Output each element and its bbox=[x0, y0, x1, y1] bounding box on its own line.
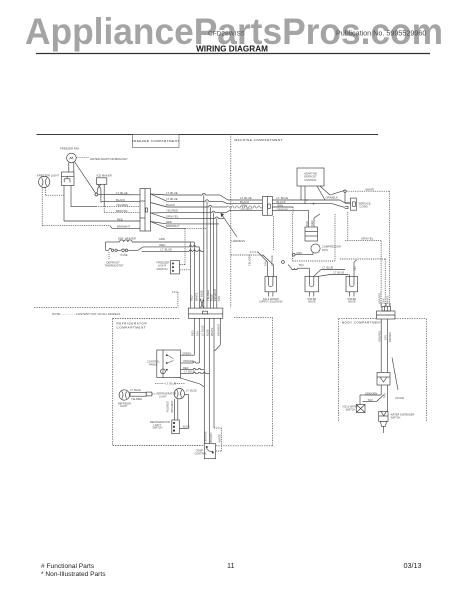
header publication number bbox=[336, 29, 426, 38]
svg-text:11: 11 bbox=[227, 561, 234, 570]
white label + dashed to right bbox=[346, 188, 389, 308]
svg-text:LT. BLUE: LT. BLUE bbox=[200, 325, 204, 336]
lt blue dashed label bbox=[155, 378, 204, 388]
defrost heater bbox=[106, 236, 191, 242]
svg-text:BLUE: BLUE bbox=[205, 329, 209, 336]
wire lt.blue into connector bbox=[98, 191, 140, 195]
header model number bbox=[208, 31, 245, 38]
watermark AppliancePartsPros.com bbox=[25, 11, 443, 52]
ice maker receptacle bbox=[62, 172, 75, 186]
freezer light switch bbox=[157, 260, 191, 307]
damper control box bbox=[147, 350, 181, 378]
svg-text:WATER ADAPTOR BRACKET: WATER ADAPTOR BRACKET bbox=[90, 157, 128, 161]
svg-text:VALVE: VALVE bbox=[348, 301, 356, 304]
ice maker receptacle wires bbox=[64, 186, 140, 222]
svg-text:RED: RED bbox=[310, 220, 314, 226]
valve V3 bbox=[346, 276, 358, 303]
svg-text:YEL/RED: YEL/RED bbox=[240, 208, 252, 212]
water adaptor bracket label bbox=[76, 157, 128, 161]
svg-text:GRN/YEL: GRN/YEL bbox=[377, 330, 381, 342]
temp control leads bbox=[214, 428, 221, 451]
svg-text:# Functional Parts: # Functional Parts bbox=[41, 563, 95, 570]
svg-text:GRN/YEL: GRN/YEL bbox=[361, 236, 374, 240]
svg-text:COMPARTMENT: COMPARTMENT bbox=[117, 326, 147, 330]
svg-text:WHITE: WHITE bbox=[210, 327, 214, 336]
service cord bbox=[344, 190, 371, 210]
svg-text:YEL/RED: YEL/RED bbox=[166, 401, 170, 412]
svg-text:FUSE: FUSE bbox=[121, 253, 128, 257]
center bundle verticals bbox=[191, 195, 217, 308]
svg-text:LT. BLUE: LT. BLUE bbox=[199, 290, 203, 301]
svg-text:LIGHT: LIGHT bbox=[120, 405, 128, 408]
freezer light dashed leads bbox=[42, 187, 110, 225]
svg-text:ORN/BLK: ORN/BLK bbox=[326, 196, 338, 200]
svg-text:BRN/WHT: BRN/WHT bbox=[166, 224, 179, 228]
svg-text:* Non-Illustrated Parts: * Non-Illustrated Parts bbox=[41, 571, 106, 578]
wire brn/wht into connector bbox=[110, 225, 140, 229]
svg-text:DOOR: DOOR bbox=[396, 396, 404, 400]
svg-text:BLACK: BLACK bbox=[166, 203, 175, 207]
svg-text:FREEZER COMPARTMENT: FREEZER COMPARTMENT bbox=[132, 139, 180, 143]
svg-text:YEL/GRN: YEL/GRN bbox=[248, 254, 252, 266]
below-connector rotated labels bbox=[190, 323, 220, 336]
grn/orn + tan wires left bbox=[365, 385, 384, 402]
svg-text:LT. BLUE: LT. BLUE bbox=[184, 370, 195, 374]
svg-text:ORN/YEL: ORN/YEL bbox=[166, 214, 179, 218]
run yel/red bbox=[166, 209, 230, 213]
bottom connector bbox=[188, 299, 223, 318]
svg-text:ORANGE: ORANGE bbox=[183, 359, 195, 363]
svg-text:SWITCH: SWITCH bbox=[346, 408, 356, 411]
machine inline plug bbox=[263, 196, 273, 215]
svg-text:VIO: VIO bbox=[353, 267, 357, 271]
compressor ground bbox=[292, 251, 313, 256]
svg-text:ORN/YEL: ORN/YEL bbox=[277, 208, 290, 212]
run orn/yel bbox=[166, 214, 224, 218]
defrost thermostat bbox=[105, 242, 124, 268]
run black bbox=[166, 203, 227, 207]
svg-text:GRN: GRN bbox=[159, 237, 165, 241]
svg-text:WIRING DIAGRAM: WIRING DIAGRAM bbox=[196, 45, 268, 54]
V1 leads bbox=[231, 252, 274, 276]
svg-text:TAN: TAN bbox=[264, 261, 268, 266]
svg-text:GRN/YEL: GRN/YEL bbox=[377, 292, 381, 304]
run lt.blue 1 bbox=[166, 191, 228, 200]
svg-text:Publication No. 5995529960: Publication No. 5995529960 bbox=[336, 29, 426, 38]
wire red into connector bbox=[117, 217, 123, 221]
svg-text:LT. BLUE: LT. BLUE bbox=[186, 389, 197, 393]
svg-text:TAN: TAN bbox=[383, 393, 387, 398]
svg-text:LT. BLUE: LT. BLUE bbox=[130, 388, 141, 392]
svg-text:YEL/RED: YEL/RED bbox=[206, 290, 210, 301]
relay rotated labels bbox=[305, 220, 314, 226]
svg-text:RED: RED bbox=[166, 220, 172, 224]
body rotated labels bbox=[377, 330, 391, 342]
svg-text:YEL/RED: YEL/RED bbox=[166, 209, 178, 213]
wires below connector bbox=[194, 319, 220, 444]
wire brn/yel into connector bbox=[116, 209, 128, 213]
freezer light bbox=[37, 174, 59, 188]
svg-text:LIGHT: LIGHT bbox=[159, 395, 167, 398]
svg-text:FREEZER LIGHT: FREEZER LIGHT bbox=[37, 174, 59, 178]
svg-text:BRN/YEL: BRN/YEL bbox=[116, 209, 128, 213]
svg-text:YEL/RED: YEL/RED bbox=[116, 203, 128, 207]
svg-text:BLUE: BLUE bbox=[209, 294, 213, 301]
svg-text:BRN/WHT: BRN/WHT bbox=[117, 225, 130, 229]
main connector block bbox=[140, 189, 151, 232]
svg-text:SWITCH: SWITCH bbox=[153, 427, 163, 430]
svg-text:THERMOSTAT: THERMOSTAT bbox=[105, 264, 124, 268]
relay overload bbox=[305, 210, 320, 241]
refrigerator light switch bbox=[150, 399, 190, 434]
svg-text:WHITE: WHITE bbox=[386, 295, 390, 304]
machine runs to plug bbox=[227, 196, 262, 212]
svg-text:ICE MAKER: ICE MAKER bbox=[96, 174, 111, 178]
door pointer bbox=[392, 358, 404, 401]
svg-text:LT. BLUE: LT. BLUE bbox=[323, 266, 334, 270]
svg-text:LT. BLUE: LT. BLUE bbox=[270, 255, 274, 266]
machine compartment top border bbox=[231, 134, 378, 136]
dispenser plug bbox=[381, 421, 387, 433]
compartment separator dashed line bbox=[34, 306, 178, 308]
svg-text:PANEL: PANEL bbox=[149, 363, 158, 367]
svg-text:CORD: CORD bbox=[359, 205, 367, 209]
svg-text:BRN/WHT: BRN/WHT bbox=[213, 288, 217, 301]
light interconnect bbox=[130, 388, 197, 429]
machine compartment left dashed border bbox=[230, 134, 232, 308]
svg-text:BLK: BLK bbox=[305, 221, 309, 226]
freezer fan motor bbox=[60, 147, 96, 194]
temp control rotated labels bbox=[203, 431, 221, 443]
svg-text:TAN: TAN bbox=[384, 335, 388, 340]
svg-text:GRN: GRN bbox=[382, 298, 386, 304]
svg-text:GREEN: GREEN bbox=[182, 351, 191, 355]
svg-text:BLUE: BLUE bbox=[183, 425, 190, 429]
svg-text:NOTE: - - - - - - - - CONTENT: NOTE: - - - - - - - - CONTENT NOT ON ALL… bbox=[52, 312, 120, 316]
body wires down bbox=[381, 319, 387, 373]
svg-text:FREEZER FAN: FREEZER FAN bbox=[60, 147, 79, 151]
svg-text:RED: RED bbox=[183, 366, 189, 370]
bundle rotated labels bbox=[189, 288, 221, 301]
svg-text:RED: RED bbox=[189, 295, 193, 301]
run red bbox=[166, 220, 219, 224]
svg-text:WHITE: WHITE bbox=[217, 434, 221, 443]
svg-text:03/13: 03/13 bbox=[404, 561, 422, 570]
thermal fuse bbox=[121, 249, 139, 257]
wire yel/red into connector bbox=[116, 203, 128, 207]
svg-text:RUN: RUN bbox=[322, 248, 328, 252]
runs right of plug bbox=[272, 196, 345, 212]
svg-text:YEL/RED: YEL/RED bbox=[131, 397, 142, 401]
V1 rotated labels bbox=[248, 254, 275, 266]
svg-text:TAN: TAN bbox=[299, 263, 304, 267]
svg-text:SWITCH: SWITCH bbox=[157, 267, 168, 271]
svg-text:MACHINE COMPARTMENT: MACHINE COMPARTMENT bbox=[235, 138, 284, 142]
svg-text:ORANGE: ORANGE bbox=[203, 431, 207, 443]
V3 leads bbox=[350, 260, 357, 276]
V2 leads bbox=[288, 263, 349, 276]
wire red row bbox=[138, 243, 199, 250]
wire green row bbox=[159, 237, 165, 241]
compressor bbox=[311, 244, 341, 253]
wire black into connector bbox=[102, 198, 140, 202]
ice maker bbox=[95, 174, 140, 213]
svg-text:GRN: GRN bbox=[296, 251, 302, 255]
svg-text:LT. BLUE: LT. BLUE bbox=[166, 191, 178, 195]
svg-text:CFD28WIS5: CFD28WIS5 bbox=[208, 31, 245, 38]
svg-text:BROWN: BROWN bbox=[209, 432, 213, 442]
freezer compartment label box bbox=[133, 135, 180, 148]
fridge rotated wire labels bbox=[166, 400, 174, 413]
body compartment dashed box bbox=[339, 319, 427, 422]
svg-text:BROWN: BROWN bbox=[388, 332, 392, 342]
svg-text:RED: RED bbox=[117, 217, 123, 221]
grn/yel dashed grounds bbox=[340, 212, 385, 308]
svg-text:BODY COMPARTMENT: BODY COMPARTMENT bbox=[342, 321, 383, 325]
adaptive defrost control board bbox=[297, 168, 344, 204]
svg-text:TAN: TAN bbox=[217, 296, 221, 301]
harness arrow bbox=[221, 214, 245, 243]
svg-text:HARNESS: HARNESS bbox=[232, 239, 246, 243]
orn/blk label bbox=[282, 196, 338, 264]
ground rotated labels bbox=[377, 292, 389, 304]
svg-text:GRN/ORN: GRN/ORN bbox=[365, 391, 377, 395]
fanout wires right of connector bbox=[151, 194, 168, 228]
refrigerator light left bbox=[118, 390, 132, 408]
svg-text:SUPPLY SOLENOID: SUPPLY SOLENOID bbox=[259, 301, 282, 304]
temp control bbox=[195, 444, 216, 459]
valve V1 ice water supply solenoid bbox=[259, 276, 282, 303]
svg-text:VALVE: VALVE bbox=[308, 301, 316, 304]
svg-text:RED: RED bbox=[190, 330, 194, 336]
svg-text:LT. BLUE: LT. BLUE bbox=[166, 197, 178, 201]
body connector bbox=[377, 303, 396, 319]
svg-text:BRN/WHT: BRN/WHT bbox=[170, 400, 174, 413]
refrigerator compartment dashed box bbox=[113, 317, 273, 446]
run lt.blue 2 bbox=[166, 197, 227, 203]
svg-text:CONTROL: CONTROL bbox=[195, 452, 208, 455]
run brn/wht lower bbox=[166, 224, 207, 265]
svg-text:CONTROL: CONTROL bbox=[304, 178, 317, 182]
dispenser switch blob bbox=[343, 395, 366, 413]
svg-text:TAN: TAN bbox=[195, 331, 199, 336]
title WIRING DIAGRAM bbox=[196, 45, 268, 54]
svg-text:WHITE: WHITE bbox=[194, 292, 198, 301]
svg-text:BRN/WHT: BRN/WHT bbox=[216, 323, 220, 336]
refrigerator light right bbox=[174, 389, 184, 399]
valve V2 water valve bbox=[305, 276, 319, 303]
dispenser actuator bbox=[377, 373, 390, 386]
svg-text:LT. BLUE: LT. BLUE bbox=[334, 271, 345, 275]
footer functional parts bbox=[41, 561, 422, 578]
water dispenser switch bbox=[379, 385, 415, 421]
svg-text:TAN: TAN bbox=[368, 398, 373, 402]
wire lt.blue row bbox=[142, 248, 204, 252]
freezer compartment top border bbox=[37, 134, 231, 136]
header rule bbox=[36, 53, 430, 55]
svg-text:SWITCH: SWITCH bbox=[391, 416, 401, 419]
compressor dashed enclosure bbox=[274, 207, 335, 261]
damper box wires bbox=[181, 351, 210, 373]
